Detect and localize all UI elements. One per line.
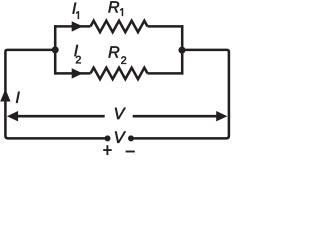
label R2 (resistor 2) <box>109 46 120 57</box>
wire: V arrow line right segment <box>133 115 220 118</box>
arrow: I current direction (up) <box>0 89 10 102</box>
wire: top-right connector, right rail, bottom-right wire <box>131 50 229 138</box>
node: right junction <box>179 47 186 54</box>
label I2 (current 2) <box>74 45 78 56</box>
label + (source polarity) <box>103 145 112 155</box>
arrow: V left arrowhead <box>7 111 18 121</box>
wire: V arrow line left segment <box>14 115 105 118</box>
arrow: I1 current direction <box>72 21 83 31</box>
wire: branch 2 left lead <box>54 72 91 75</box>
label V (middle voltage arrow) <box>115 108 126 119</box>
resistor R2 <box>91 68 148 79</box>
label I1 (current 1) <box>73 3 77 14</box>
resistor R1 <box>91 21 148 32</box>
arrow: I2 current direction <box>72 68 83 78</box>
wire: left connector, left rail, bottom-left wire <box>5 50 107 138</box>
wire: right branch bus <box>181 25 184 74</box>
arrow: V right arrowhead <box>216 111 227 121</box>
label - (source polarity) <box>126 151 135 153</box>
wire: left branch bus <box>54 25 57 74</box>
wire: branch 1 right lead <box>148 25 184 28</box>
label I (total current) <box>16 92 20 103</box>
label V (source voltage) <box>115 132 126 143</box>
wire: branch 1 left lead <box>54 25 91 28</box>
node: source + terminal <box>105 135 111 141</box>
label R1 (resistor 1) <box>108 1 119 12</box>
wire: branch 2 right lead <box>148 72 184 75</box>
node: left junction <box>52 46 59 53</box>
node: source - terminal <box>128 135 134 141</box>
